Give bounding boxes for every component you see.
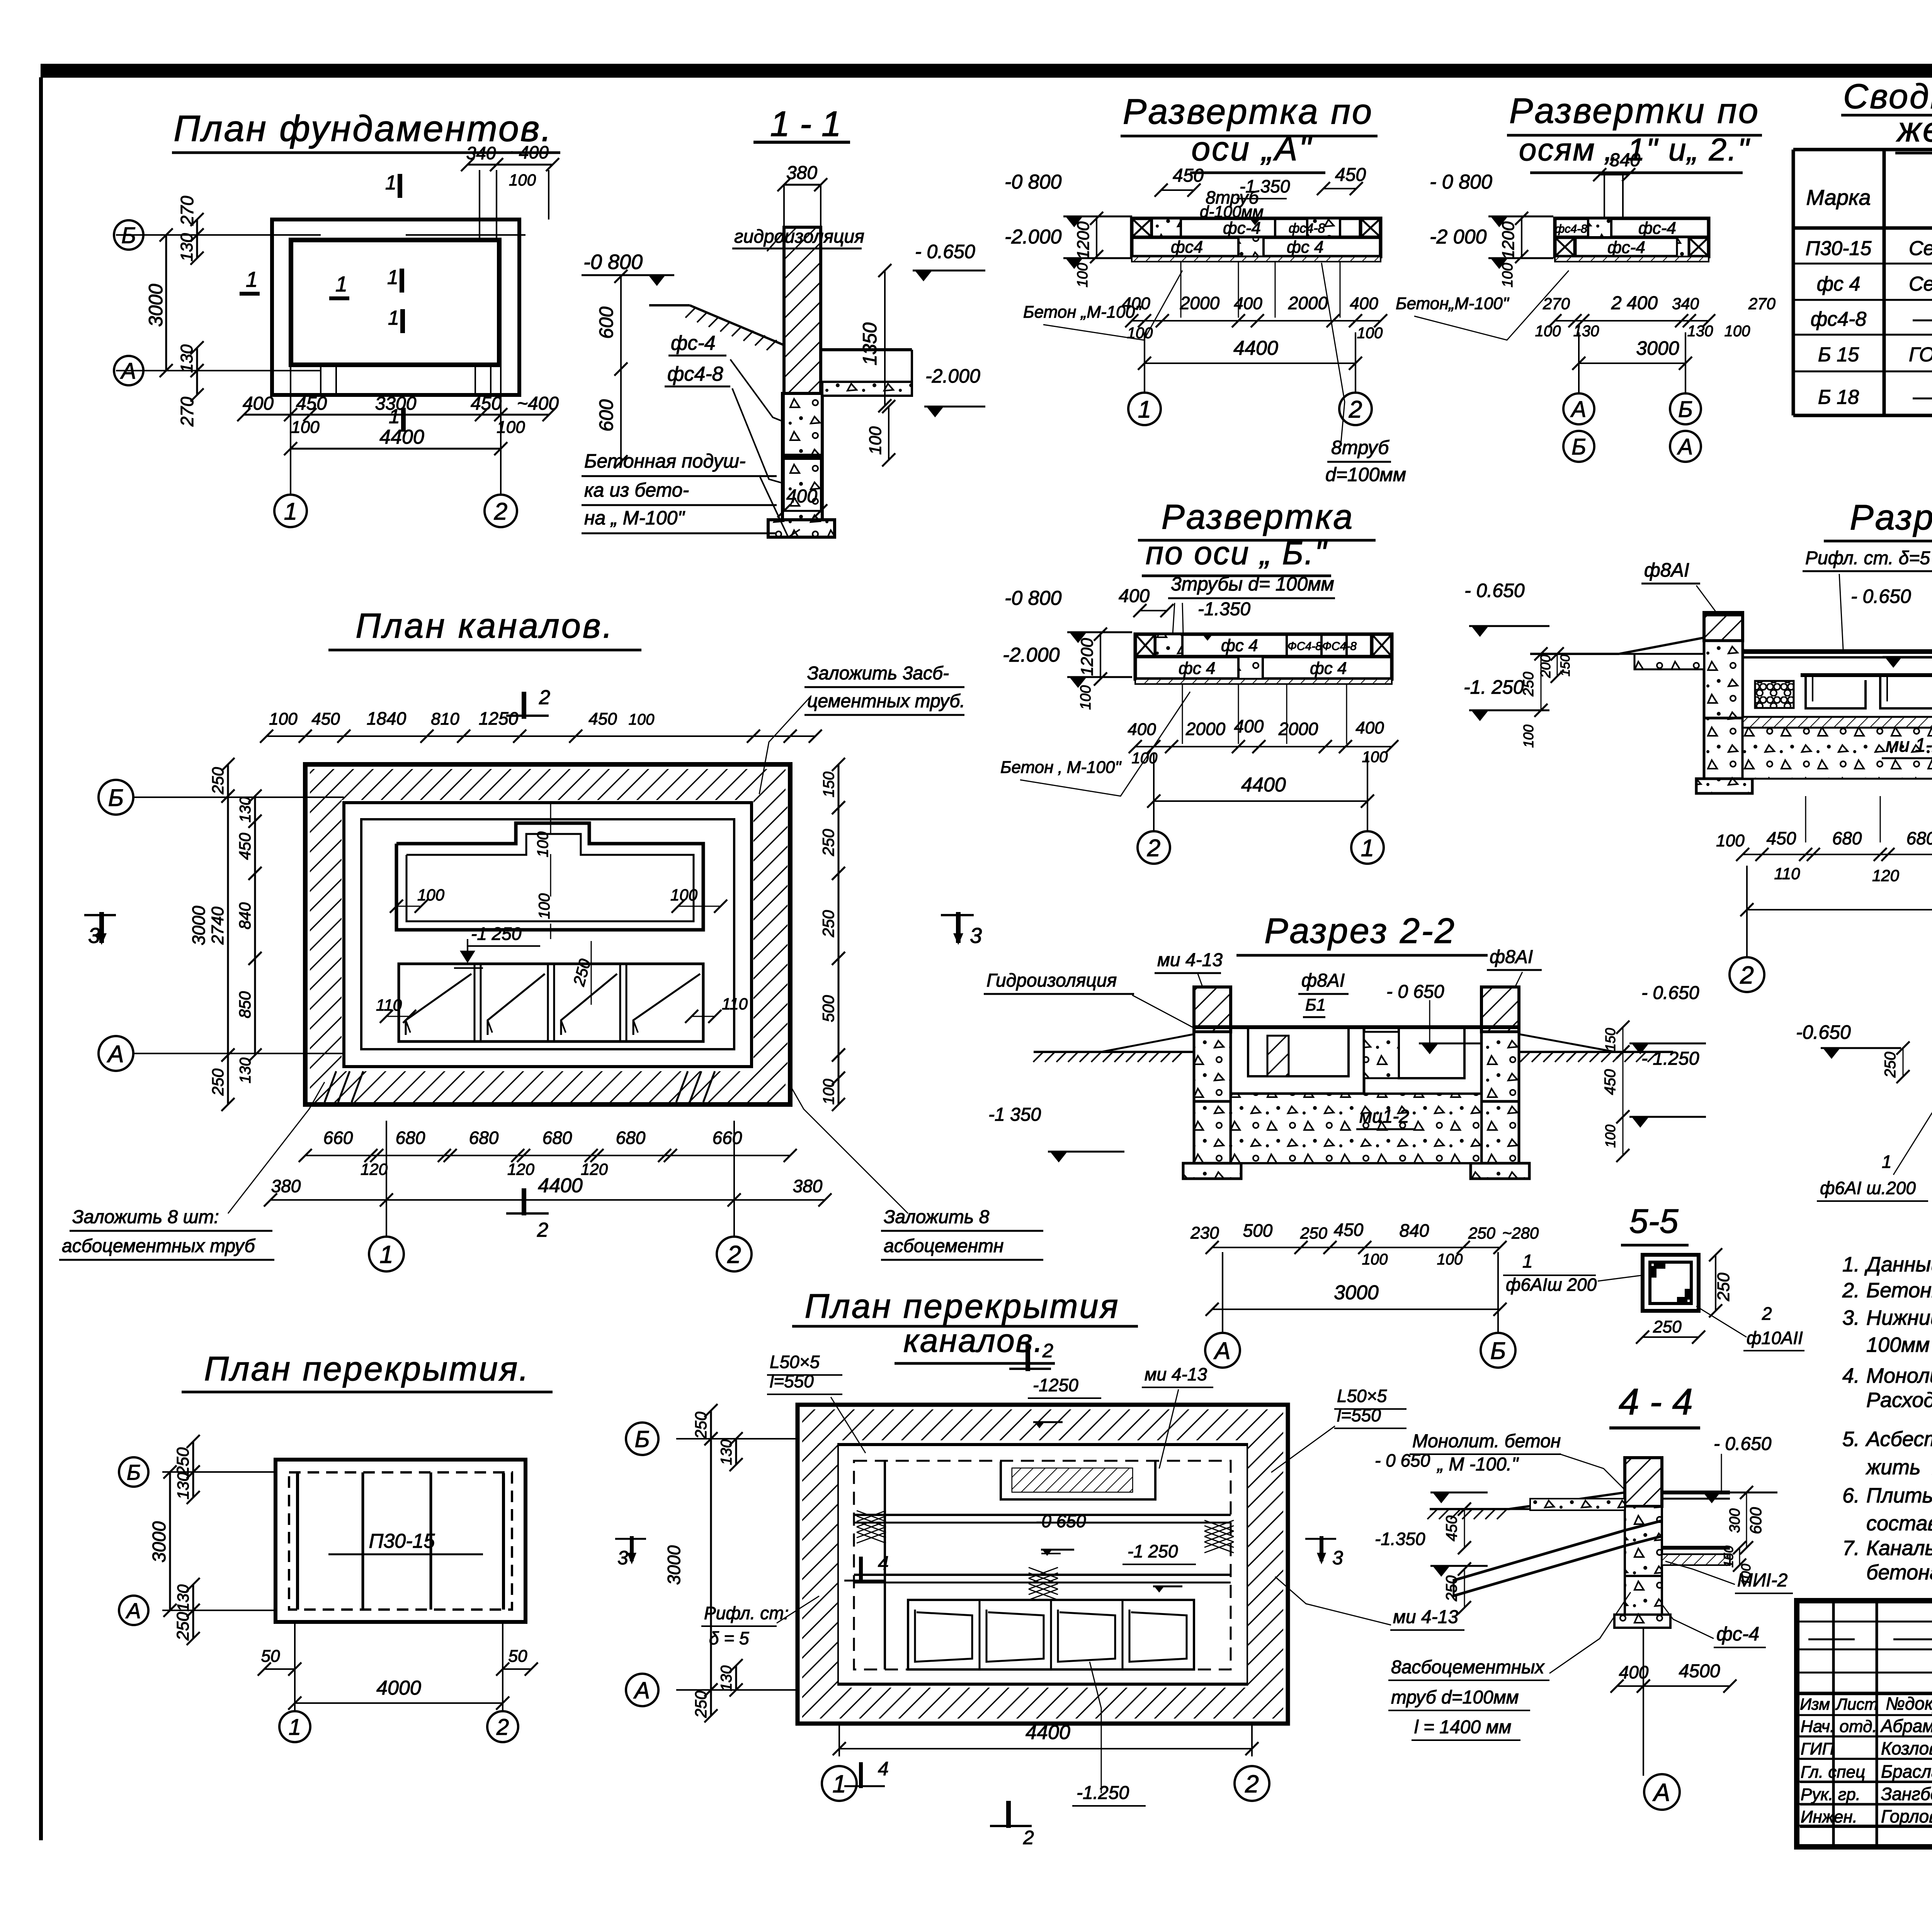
plan p-k circle 1 [822, 1766, 857, 1801]
svg-text:l=550: l=550 [770, 1371, 814, 1391]
svg-text:Расход бетона V= 0,9 м.³: Расход бетона V= 0,9 м.³ [1866, 1389, 1932, 1412]
svg-text:~400: ~400 [509, 142, 549, 162]
svg-text:1: 1 [388, 307, 399, 329]
svg-text:2.: 2. [1842, 1279, 1860, 1302]
svg-text:П30-15: П30-15 [1806, 237, 1872, 260]
svg-text:660: 660 [323, 1128, 353, 1148]
razrez 3-3 dims [1716, 683, 1932, 916]
title: Plan perekrytiya kanalov [792, 1287, 1138, 1363]
svg-text:2: 2 [494, 498, 507, 525]
svg-text:Б: Б [127, 1460, 141, 1484]
razrez 2-2 structure [1034, 987, 1673, 1179]
svg-text:4400: 4400 [1233, 337, 1278, 359]
svg-text:-0.650: -0.650 [1796, 1021, 1851, 1043]
svg-text:А: А [1570, 397, 1587, 422]
svg-text:Гидроизоляция: Гидроизоляция [986, 970, 1117, 991]
svg-text:380: 380 [793, 1176, 823, 1196]
svg-text:Рук. гр.: Рук. гр. [1801, 1785, 1861, 1804]
svg-text:2000: 2000 [1278, 719, 1318, 739]
svg-text:1: 1 [1522, 1251, 1533, 1272]
plan kanalov circle 1 [369, 1121, 404, 1271]
svg-text:2: 2 [1147, 835, 1160, 861]
svg-text:130: 130 [718, 1666, 735, 1691]
svg-text:фс4-8: фс4-8 [1289, 221, 1325, 236]
4-4 side dims [1375, 1450, 1765, 1614]
razrez 2-2 right levels [988, 983, 1706, 1162]
svg-text:3: 3 [617, 1547, 628, 1569]
B-1 levels [1796, 1021, 1910, 1083]
svg-text:450: 450 [236, 832, 254, 860]
svg-text:- 0.650: - 0.650 [1641, 983, 1699, 1003]
razvertka B circle 2 [1138, 754, 1170, 864]
svg-text:железобетонных: железобетонных [1896, 111, 1932, 149]
razvertka A levels [1005, 171, 1290, 288]
svg-text:№докум.: №докум. [1886, 1693, 1932, 1714]
svg-text:- 1.250: - 1.250 [1641, 1048, 1699, 1069]
svg-text:2 400: 2 400 [1611, 293, 1658, 313]
svg-text:Плиты покрытия укладываются: Плиты покрытия укладываются на цементном… [1866, 1484, 1932, 1507]
svg-text:680: 680 [616, 1128, 646, 1148]
svg-text:2: 2 [1762, 1303, 1772, 1324]
foundation plan bottom dims [237, 393, 559, 455]
svg-text:L50×5: L50×5 [770, 1352, 820, 1372]
svg-text:1: 1 [289, 1715, 301, 1740]
svg-text:А: А [120, 359, 136, 384]
svg-text:100: 100 [866, 426, 885, 455]
svg-text:ми 1-2: ми 1-2 [1886, 734, 1932, 756]
plan p-k circle A [626, 1674, 658, 1706]
svg-text:4400: 4400 [538, 1174, 583, 1197]
axis circle 1 [274, 495, 307, 527]
svg-text:1: 1 [1138, 396, 1151, 423]
notes text [1842, 1253, 1932, 1584]
svg-text:А: А [633, 1678, 650, 1703]
svg-text:-0 800: -0 800 [1005, 587, 1062, 609]
svg-text:ф8АI: ф8АI [1301, 970, 1345, 991]
svg-text:ГИП: ГИП [1801, 1739, 1834, 1758]
svg-text:Нижний ряд блоков укладывае: Нижний ряд блоков укладывается на подушк… [1866, 1306, 1932, 1329]
svg-text:гидроизоляция: гидроизоляция [734, 226, 864, 247]
svg-text:d=100мм: d=100мм [1325, 464, 1406, 485]
title block grid left [1797, 1601, 1932, 1847]
svg-text:380: 380 [786, 163, 817, 183]
svg-text:270: 270 [177, 196, 197, 226]
foundation plan wall joints [321, 220, 497, 395]
svg-text:100: 100 [1078, 685, 1094, 710]
razrez 2-2 ground hatch [1033, 1052, 1658, 1062]
svg-text:Серия 1.141-1 вып. 10: Серия 1.141-1 вып. 10 [1909, 237, 1932, 260]
svg-text:Сводная специфиикация: Сводная специфиикация [1843, 77, 1932, 116]
svg-text:250: 250 [570, 957, 594, 988]
svg-text:Лист: Лист [1835, 1695, 1878, 1713]
svg-text:3трубы d= 100мм: 3трубы d= 100мм [1171, 573, 1334, 595]
razvertka 1-2 circle B top [1670, 332, 1701, 424]
svg-text:Марка: Марка [1806, 185, 1871, 209]
svg-text:450: 450 [311, 710, 340, 728]
svg-text:Развертка: Развертка [1162, 498, 1354, 536]
svg-text:7.: 7. [1842, 1537, 1860, 1560]
svg-text:Рифл. ст. δ=5: Рифл. ст. δ=5 [1805, 548, 1930, 568]
svg-text:150: 150 [1602, 1028, 1618, 1051]
svg-text:270: 270 [1543, 294, 1570, 313]
svg-text:ка из бето-: ка из бето- [584, 479, 689, 501]
svg-text:Монолитные участки фун-тоб: Монолитные участки фун-тоб выполнить из … [1866, 1364, 1932, 1387]
svg-text:Развертка по: Развертка по [1123, 92, 1373, 131]
svg-text:-2.000: -2.000 [925, 365, 980, 387]
svg-text:Изм: Изм [1800, 1695, 1830, 1713]
svg-text:4500: 4500 [1679, 1661, 1720, 1681]
svg-text:150: 150 [820, 772, 837, 798]
plan kanalov inner line [361, 819, 734, 1049]
svg-text:МИI-2: МИI-2 [1737, 1570, 1787, 1591]
svg-text:1: 1 [335, 272, 347, 296]
svg-text:фс-4: фс-4 [1638, 219, 1676, 238]
svg-text:1: 1 [389, 405, 400, 428]
svg-text:100: 100 [536, 893, 553, 919]
svg-text:1: 1 [387, 266, 398, 289]
razrez 2-2 circle A [1205, 1252, 1240, 1368]
svg-text:Гл. спец: Гл. спец [1801, 1763, 1865, 1782]
svg-text:500: 500 [819, 995, 837, 1022]
svg-text:План перекрытия: План перекрытия [805, 1287, 1120, 1325]
svg-text:110: 110 [722, 995, 748, 1013]
title: Svodnaya spetsifikatsiya [1841, 77, 1932, 153]
svg-text:Асбестоцементные трубы d=: Асбестоцементные трубы d= 100мм для кабе… [1865, 1428, 1932, 1451]
svg-text:2: 2 [496, 1715, 509, 1740]
svg-text:450: 450 [588, 710, 617, 728]
svg-text:ми 4-13: ми 4-13 [1145, 1364, 1207, 1384]
svg-text:50: 50 [509, 1647, 527, 1666]
plan p-k bottom dims [833, 1721, 1259, 1756]
svg-text:Нач. отд.: Нач. отд. [1801, 1717, 1877, 1736]
sheet left border line [39, 77, 43, 1840]
svg-text:Разрез 3-3.: Разрез 3-3. [1850, 498, 1932, 537]
svg-text:-2.000: -2.000 [1003, 644, 1060, 666]
svg-text:100: 100 [820, 1079, 837, 1105]
svg-text:Бетонные блоки укладывать н: Бетонные блоки укладывать на цементном р… [1866, 1279, 1932, 1302]
razvertka 1-2 dims [1396, 271, 1776, 370]
svg-text:1 - 1: 1 - 1 [770, 104, 841, 144]
svg-text:2: 2 [537, 1219, 548, 1241]
plan perekrytiya bottom dims [258, 1623, 538, 1710]
svg-text:1: 1 [379, 1241, 393, 1268]
svg-text:150: 150 [1558, 655, 1573, 677]
svg-text:Серия 1.116-1 вып. 1: Серия 1.116-1 вып. 1 [1909, 273, 1932, 295]
svg-text:-1 350: -1 350 [1240, 176, 1290, 196]
svg-text:Бетон ‚ М-100": Бетон ‚ М-100" [1000, 758, 1122, 777]
svg-text:ф6АI ш.200: ф6АI ш.200 [1820, 1178, 1916, 1198]
svg-text:450: 450 [471, 393, 502, 414]
razvertka A circle 2 [1339, 332, 1372, 425]
svg-text:450: 450 [1173, 165, 1204, 186]
razvertka 1-2 circle A bottom [1670, 431, 1701, 462]
svg-text:110: 110 [376, 996, 402, 1014]
section 1-1 wall [649, 227, 912, 537]
title: Razvertka po osi A [1121, 92, 1378, 173]
foundation plan walls [272, 220, 519, 395]
title: Plan fundamentov [172, 108, 560, 153]
svg-text:ФС4-8: ФС4-8 [1287, 640, 1322, 653]
razrez 3-3 structure [1530, 613, 1932, 793]
svg-text:340: 340 [1672, 294, 1699, 313]
svg-text:Развертки по: Развертки по [1509, 91, 1760, 131]
svg-text:Монолит. бетон: Монолит. бетон [1412, 1431, 1561, 1452]
title: Razvertka po osi B [1138, 498, 1376, 576]
4-4 labels top [1410, 1431, 1777, 1503]
svg-text:1.: 1. [1842, 1253, 1860, 1276]
plan kanalov left dims [189, 758, 262, 1111]
svg-text:680: 680 [469, 1128, 499, 1148]
razvertka B levels [1003, 587, 1132, 710]
svg-text:1840: 1840 [367, 708, 406, 728]
svg-text:Б: Б [634, 1426, 650, 1452]
svg-text:Козловская: Козловская [1881, 1738, 1932, 1758]
svg-text:100: 100 [497, 418, 525, 437]
svg-text:250: 250 [1714, 1273, 1733, 1302]
svg-text:2000: 2000 [1180, 293, 1220, 313]
razvertka B band [1135, 634, 1392, 684]
razvertka B projection lines [1182, 684, 1347, 744]
svg-text:фс-4: фс-4 [1607, 238, 1645, 257]
razvertka B dims [1000, 692, 1398, 808]
svg-text:130: 130 [174, 1472, 192, 1499]
svg-text:100: 100 [1437, 1251, 1463, 1268]
svg-text:150: 150 [1721, 1546, 1736, 1568]
svg-text:4.: 4. [1842, 1364, 1860, 1387]
svg-text:цементных труб.: цементных труб. [807, 691, 965, 711]
svg-text:4400: 4400 [1241, 774, 1286, 796]
razvertka 1-2 band [1555, 218, 1709, 262]
svg-text:Б: Б [108, 784, 124, 811]
svg-text:~400: ~400 [517, 393, 559, 414]
svg-text:660: 660 [713, 1128, 742, 1148]
svg-text:2000: 2000 [1185, 719, 1226, 739]
svg-text:130: 130 [177, 233, 196, 262]
svg-text:План каналов.: План каналов. [355, 607, 614, 645]
plan p-k walls [798, 1405, 1288, 1724]
svg-text:1: 1 [1361, 835, 1374, 861]
svg-text:100: 100 [269, 710, 298, 728]
svg-text:450: 450 [1602, 1069, 1619, 1095]
svg-text:-1.250: -1.250 [1077, 1783, 1129, 1803]
svg-text:Разрез 2-2: Разрез 2-2 [1264, 911, 1456, 951]
svg-text:ф10АII: ф10АII [1747, 1328, 1803, 1348]
svg-text:120: 120 [1872, 866, 1900, 885]
svg-text:Инжен.: Инжен. [1801, 1807, 1857, 1826]
plan perekrytiya circle 2 [487, 1711, 518, 1742]
svg-text:Данный лист комплектен с л: Данный лист комплектен с листом Кж- 53 . [1864, 1253, 1932, 1276]
svg-text:130: 130 [237, 1058, 254, 1084]
svg-text:100: 100 [1716, 831, 1745, 850]
title: 1-1 [753, 104, 850, 144]
svg-text:состава 1:2 толщиной 30мм.: состава 1:2 толщиной 30мм. [1866, 1512, 1932, 1535]
plan kanalov lower channels [399, 964, 703, 1041]
svg-text:-1.350: -1.350 [1375, 1529, 1425, 1549]
svg-text:- 0.650: - 0.650 [1464, 580, 1525, 601]
svg-text:3000: 3000 [664, 1545, 684, 1585]
plan p-k left dims [664, 1404, 798, 1722]
spec table grid [1793, 150, 1932, 415]
razvertka B circle 1 [1351, 754, 1384, 864]
plan kanalov upper channel [396, 823, 703, 930]
svg-text:План фундаментов.: План фундаментов. [173, 108, 553, 149]
plan perekrytiya circle 1 [279, 1711, 310, 1742]
svg-text:каналов.: каналов. [903, 1322, 1044, 1359]
svg-text:-1 250: -1 250 [471, 924, 522, 944]
svg-text:Браславский: Браславский [1881, 1761, 1932, 1782]
svg-text:~280: ~280 [1502, 1224, 1539, 1242]
svg-text:фс 4: фс 4 [1817, 273, 1861, 295]
svg-text:А: А [1677, 434, 1693, 459]
svg-text:3000: 3000 [149, 1521, 170, 1562]
plan kanalov circle B [99, 780, 344, 815]
svg-text:250: 250 [692, 1690, 710, 1718]
4-4 bottom dims [1611, 1628, 1736, 1776]
sheet top border bar [41, 64, 1932, 78]
svg-text:-1. 250: -1. 250 [1464, 676, 1524, 698]
svg-text:-1.350: -1.350 [1198, 599, 1250, 619]
svg-text:250: 250 [173, 1612, 192, 1641]
svg-text:130: 130 [177, 344, 196, 373]
svg-text:250: 250 [1468, 1224, 1496, 1242]
svg-text:- 0.650: - 0.650 [1714, 1434, 1772, 1454]
svg-text:680: 680 [1906, 828, 1932, 848]
svg-text:l=550: l=550 [1337, 1405, 1381, 1425]
svg-text:4: 4 [878, 1758, 889, 1780]
svg-text:Бетон„М-100": Бетон„М-100" [1396, 294, 1510, 313]
svg-text:асбоцементных труб: асбоцементных труб [62, 1236, 256, 1256]
svg-text:5-5: 5-5 [1629, 1202, 1679, 1240]
plan kanalov section marks [84, 686, 982, 1241]
svg-text:2: 2 [1740, 961, 1754, 989]
svg-text:Б: Б [1571, 434, 1586, 459]
svg-text:- 0 650: - 0 650 [1375, 1450, 1430, 1470]
plan kanalov wall hatch [310, 769, 787, 1102]
svg-text:2: 2 [1042, 1340, 1053, 1361]
svg-text:1200: 1200 [1499, 221, 1518, 259]
4-4 circle A [1644, 1774, 1680, 1810]
svg-text:130: 130 [237, 797, 254, 823]
svg-text:810: 810 [431, 710, 459, 728]
plan p-k labels [701, 1352, 1464, 1806]
plan kanalov note top right [759, 663, 965, 794]
svg-text:8асбоцементных: 8асбоцементных [1391, 1657, 1545, 1678]
svg-text:ф8АI: ф8АI [1644, 559, 1689, 581]
svg-text:2: 2 [1245, 1770, 1259, 1798]
title: Razrez 3-3 [1824, 498, 1932, 541]
svg-text:А: А [1652, 1778, 1670, 1806]
plan p-k circle 2 [1235, 1766, 1269, 1801]
svg-text:400: 400 [1119, 586, 1150, 606]
svg-text:8труб: 8труб [1331, 437, 1389, 458]
svg-text:-1 250: -1 250 [1128, 1541, 1178, 1561]
plan p-k section marks [615, 1340, 1343, 1848]
razvertka A dims [1023, 271, 1387, 370]
svg-text:ГОСТ 948-66: ГОСТ 948-66 [1909, 344, 1932, 366]
svg-text:1350: 1350 [859, 322, 881, 365]
razrez 3-3 circle 2 [1730, 866, 1764, 992]
svg-text:1: 1 [1882, 1152, 1892, 1172]
svg-text:1: 1 [246, 267, 258, 291]
title block signatures [1800, 1693, 1932, 1827]
svg-text:100: 100 [534, 832, 551, 858]
razvertka A circle 1 [1128, 332, 1161, 425]
razrez 3-3 left small dims [1520, 647, 1573, 748]
svg-text:ФС4-8: ФС4-8 [1322, 640, 1357, 653]
section marks 1 [240, 172, 403, 432]
svg-text:2: 2 [1023, 1827, 1034, 1848]
svg-text:400: 400 [1350, 294, 1378, 313]
svg-text:250: 250 [1300, 1224, 1328, 1242]
svg-text:Б 18: Б 18 [1818, 386, 1859, 408]
svg-text:ф6АIш 200: ф6АIш 200 [1506, 1275, 1597, 1295]
svg-text:2740: 2740 [208, 907, 227, 945]
4-4 labels bottom [1388, 1561, 1793, 1740]
svg-text:ми 4-13: ми 4-13 [1157, 950, 1223, 970]
svg-text:680: 680 [1832, 828, 1862, 848]
svg-text:100: 100 [1725, 323, 1750, 340]
svg-text:100: 100 [1362, 1251, 1388, 1268]
svg-text:250: 250 [173, 1447, 192, 1476]
svg-text:3000: 3000 [145, 284, 167, 327]
svg-text:фс 4: фс 4 [1310, 659, 1347, 678]
svg-text:250: 250 [1882, 1052, 1899, 1078]
svg-text:6.: 6. [1842, 1484, 1860, 1507]
svg-text:фс 4: фс 4 [1221, 636, 1258, 655]
svg-text:100мм из бетона „ М-100": 100мм из бетона „ М-100" [1866, 1333, 1932, 1356]
svg-text:250: 250 [209, 767, 227, 795]
svg-text:-0 800: -0 800 [583, 250, 643, 274]
svg-text:Бетон „М-100": Бетон „М-100" [1023, 303, 1142, 322]
svg-text:100: 100 [1357, 325, 1383, 342]
svg-text:270: 270 [1748, 294, 1776, 313]
plan p-k wall hatch [802, 1409, 1283, 1719]
svg-text:400: 400 [243, 393, 274, 414]
svg-text:фс 4: фс 4 [1287, 238, 1323, 257]
spec table content [1806, 169, 1932, 408]
svg-text:- 0 800: - 0 800 [1430, 171, 1492, 193]
svg-text:2: 2 [539, 686, 550, 709]
svg-text:230: 230 [1190, 1224, 1219, 1242]
svg-text:Горлова: Горлова [1881, 1806, 1932, 1826]
razrez 2-2 dims [1190, 1220, 1539, 1316]
plan kanalov circle 2 [717, 1121, 752, 1271]
svg-text:-1250: -1250 [1033, 1375, 1078, 1395]
svg-text:жить при бетонировании мон: жить при бетонировании монолитных участк… [1866, 1456, 1932, 1479]
svg-text:-2.000: -2.000 [1005, 226, 1062, 248]
svg-text:4: 4 [878, 1552, 889, 1574]
svg-text:Заложить 3асб-: Заложить 3асб- [807, 663, 949, 684]
svg-text:Бетонная подуш-: Бетонная подуш- [584, 450, 746, 472]
svg-text:3000: 3000 [1636, 337, 1679, 359]
axis circle A [114, 356, 143, 385]
svg-text:5.: 5. [1842, 1428, 1860, 1451]
svg-text:100: 100 [1520, 725, 1536, 748]
B-1 labels [1817, 1024, 1932, 1228]
razvertka B top labels [1119, 573, 1335, 641]
svg-text:„ М -100.": „ М -100." [1437, 1454, 1519, 1475]
svg-text:250: 250 [1520, 672, 1537, 696]
svg-text:на „ М-100": на „ М-100" [584, 507, 685, 529]
svg-text:фс4-8: фс4-8 [667, 363, 723, 385]
razrez 2-2 circle B [1481, 1252, 1515, 1368]
svg-text:фс4-8: фс4-8 [1555, 223, 1587, 235]
svg-text:3000: 3000 [189, 905, 209, 945]
foundation plan left dims [145, 196, 204, 427]
svg-text:3: 3 [1332, 1547, 1343, 1569]
title: Plan kanalov [328, 607, 641, 650]
section 1-1 labels [582, 226, 864, 537]
